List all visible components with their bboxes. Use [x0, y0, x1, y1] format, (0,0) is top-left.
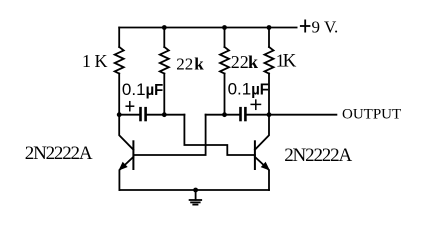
- label C1 value 0.1uF: [122, 80, 163, 99]
- transistor Q2 collector lead: [255, 115, 269, 150]
- wire R3 bottom drop: [224, 74, 226, 115]
- node dot Q1 collector: [117, 112, 122, 117]
- svg-text:K: K: [283, 51, 297, 72]
- wire capacitor C1 right lead to corner: [147, 114, 185, 116]
- wire cross-coupling B from C2 to Q1 base: [133, 115, 205, 155]
- node dot Q2 collector output: [267, 112, 272, 117]
- svg-text:µF: µF: [146, 82, 164, 100]
- transistor Q2 base bar: [254, 141, 256, 169]
- svg-text:22: 22: [231, 52, 249, 72]
- capacitor C1 plates: [141, 108, 146, 120]
- svg-text:9 V.: 9 V.: [312, 17, 339, 36]
- plus polarity mark of C2: [251, 100, 260, 109]
- svg-text:22: 22: [176, 55, 193, 74]
- label R3 value 22k: [231, 52, 258, 72]
- svg-text:2N2222A: 2N2222A: [25, 143, 93, 164]
- wire R1 bottom drop: [118, 74, 120, 115]
- transistor Q1 collector lead: [119, 115, 133, 150]
- svg-text:0.1: 0.1: [228, 80, 252, 99]
- wire left 1K top drop: [118, 28, 120, 48]
- svg-text:µF: µF: [251, 81, 269, 99]
- resistor R4 1K right zigzag: [265, 47, 274, 74]
- node dot rail-R2: [162, 25, 167, 30]
- wire cross-coupling A from C1 to Q2 base: [184, 115, 255, 155]
- transistor Q1 emitter lead: [119, 157, 133, 190]
- transistor Q1 base bar: [132, 141, 134, 169]
- plus sign of +9V supply: [301, 20, 310, 31]
- node dot R2-C1: [162, 112, 167, 117]
- node dot R3-C2: [222, 112, 227, 117]
- wire top +9V rail: [119, 27, 296, 29]
- plus polarity mark of C1: [126, 102, 133, 111]
- wire R4 bottom drop: [268, 74, 270, 115]
- capacitor C2 plates: [241, 108, 246, 120]
- resistor R3 22k right zigzag: [220, 47, 229, 74]
- wire right 22k top drop: [224, 28, 226, 48]
- wire left 22k top drop: [163, 28, 165, 48]
- transistor Q2 emitter lead: [255, 157, 269, 190]
- svg-text:k: k: [248, 52, 258, 72]
- wire capacitor C2 right lead to output: [247, 114, 337, 116]
- wire capacitor C2 left lead: [206, 114, 240, 116]
- transistor Q1 emitter arrow: [120, 163, 127, 170]
- label R4 value 1K: [276, 51, 297, 72]
- wire R2 bottom drop: [163, 74, 165, 115]
- wire bottom emitter rail: [119, 189, 269, 191]
- ground: [190, 190, 202, 205]
- node dot ground junction: [193, 188, 198, 193]
- node dot rail-R4: [267, 25, 272, 30]
- resistor R2 22k left zigzag: [160, 47, 169, 74]
- svg-text:2N2222A: 2N2222A: [284, 145, 352, 166]
- svg-text:OUTPUT: OUTPUT: [342, 106, 401, 122]
- svg-text:1 K: 1 K: [82, 51, 108, 71]
- wire right 1K top drop: [268, 28, 270, 48]
- wire capacitor C1 left lead: [119, 114, 139, 116]
- svg-text:0.1: 0.1: [122, 80, 146, 99]
- svg-text:k: k: [194, 55, 204, 74]
- transistor Q2 emitter arrow: [262, 163, 269, 170]
- node dot rail-R3: [222, 25, 227, 30]
- label R2 value 22k: [176, 55, 204, 74]
- label C2 value 0.1uF: [228, 80, 269, 99]
- resistor R1 1K left zigzag: [115, 47, 124, 74]
